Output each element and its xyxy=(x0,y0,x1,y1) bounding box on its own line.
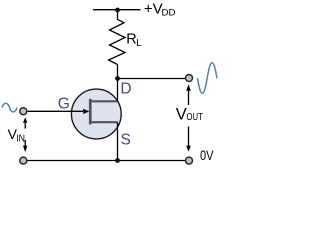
terminal input ground xyxy=(20,157,27,164)
wire bottom rail xyxy=(27,160,185,162)
arrow VIN down xyxy=(23,140,27,152)
node source junction xyxy=(115,158,120,163)
wire source vertical xyxy=(117,122,119,160)
svg-text:VOUT: VOUT xyxy=(176,105,204,123)
wire gate xyxy=(27,110,84,112)
terminal output xyxy=(186,75,193,82)
svg-text:+VDD: +VDD xyxy=(144,1,176,18)
wire drain vertical xyxy=(117,65,119,102)
wire output xyxy=(118,78,186,80)
arrow VOUT up xyxy=(186,84,191,105)
arrow VOUT down xyxy=(186,127,191,152)
waveform input sine xyxy=(2,103,17,112)
terminal input xyxy=(20,108,27,115)
svg-text:VIN: VIN xyxy=(8,126,25,144)
transistor Q1 gate arrowhead xyxy=(83,109,89,114)
terminal output ground xyxy=(186,157,193,164)
transistor Q1 channel bar xyxy=(89,99,92,125)
transistor Q1 body xyxy=(71,89,121,139)
transistor Q1 source lead xyxy=(91,121,118,123)
node VDD junction xyxy=(115,8,120,13)
resistor RL xyxy=(109,10,126,65)
svg-text:D: D xyxy=(120,81,131,98)
svg-text:0V: 0V xyxy=(200,148,214,163)
svg-text:G: G xyxy=(58,96,70,113)
svg-text:S: S xyxy=(121,131,131,148)
node drain junction xyxy=(115,76,120,81)
waveform output sine xyxy=(197,63,217,93)
transistor Q1 drain lead xyxy=(91,100,118,102)
arrow VIN up xyxy=(23,117,27,128)
svg-text:RL: RL xyxy=(126,32,142,50)
wire top rail xyxy=(93,9,141,11)
